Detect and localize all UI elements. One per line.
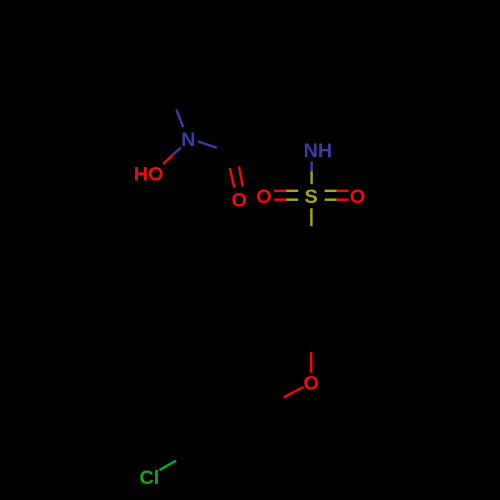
double bond S1=O3a left: oxygen halves (red) [274,190,286,192]
svg-text:O: O [232,190,247,212]
bond C7 carbonyl carbon half of C7=O1 [230,135,235,167]
bond N2-S1 sulfur half (olive) [310,172,312,185]
benzene ring 2 (chlorophenyl, invisible) [206,397,256,455]
benzene ring 1 (invisible) [280,256,343,321]
bond N2-C6 (carbon half, invisible) [290,132,305,141]
bond O4-C14 oxygen half (red, diagonal down-left) [284,387,304,397]
svg-text:N: N [181,129,195,151]
wire: carbon skeleton (black, invisible on black background) [165,46,343,461]
bond C5-C6 [290,84,298,132]
svg-text:O: O [350,186,365,208]
bond N1-C2 (nitrogen half, blue) [176,110,183,128]
double bond S1=O3a left: sulfur halves (olive) [286,190,298,192]
bond N1-C7 (nitrogen half, blue) [198,141,217,147]
double bond S1=O3b right: oxygen halves (red) [337,190,349,192]
bond C4-C5 [262,48,298,84]
bond N1-O2 oxygen half (red) [163,155,172,164]
svg-text:S: S [304,186,317,208]
double bond C7=O1 oxygen halves (red) [230,168,235,188]
bond C11-O4 oxygen half (red, vertical above ether O) [310,352,312,372]
bond C11-O4 carbon half [310,321,313,352]
bond O4-C14 carbon half [256,397,283,411]
bond S1-C8 carbon half [310,226,312,256]
svg-text:O: O [256,186,271,208]
bond C3-C4 [210,46,262,48]
svg-text:Cl: Cl [140,467,160,489]
bond C2-C3 (top ring, carbon half) [165,46,210,80]
bond S1-C8 sulfur half (olive) [310,208,312,226]
double bond S1=O3b right: sulfur halves (olive) [325,190,337,192]
bond N1-O2 nitrogen half (blue) [173,148,181,155]
bond N2-S1 nitrogen half (blue) [310,161,312,171]
bond C18-Cl carbon half [176,441,206,461]
bond C18-Cl chlorine half (green) [159,461,176,470]
svg-text:NH: NH [304,140,333,162]
benzene ring 1 inner double bonds [286,262,337,300]
bond C6-C7 [238,132,290,150]
svg-text:O: O [304,373,319,395]
svg-text:HO: HO [134,163,164,185]
